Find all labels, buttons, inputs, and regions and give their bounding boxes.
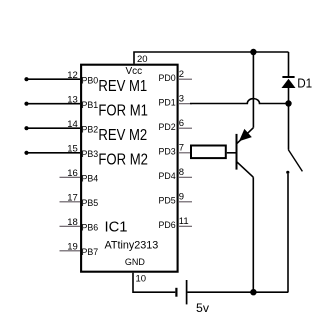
- wire Vcc pin20 stub and top rail: [134, 52, 289, 64]
- svg-text:15: 15: [67, 144, 78, 155]
- wire collector column down: [252, 177, 254, 292]
- transistor Q1 base bar: [236, 134, 238, 170]
- pin 15 wire: [27, 152, 81, 154]
- node dot diode/PD1/switch junction: [285, 100, 291, 106]
- svg-text:18: 18: [67, 217, 78, 228]
- wire resistor to base: [227, 152, 236, 154]
- pin 6 stub: [178, 127, 192, 129]
- svg-text:PB2: PB2: [82, 124, 99, 134]
- pin 16 stub: [60, 176, 81, 178]
- op-amp U1 : IC1 ATtiny2313 body: [81, 65, 178, 272]
- node dot top rail / emitter column: [250, 49, 256, 55]
- svg-text:14: 14: [67, 119, 78, 130]
- svg-text:9: 9: [179, 192, 184, 203]
- pin 13 wire: [27, 103, 81, 105]
- switch SW1 contact dot: [286, 171, 289, 174]
- svg-text:PD3: PD3: [158, 146, 175, 156]
- node dot pin 15: [24, 151, 28, 155]
- pin 18 stub: [60, 225, 81, 227]
- wire bottom rail: [188, 291, 289, 293]
- transistor Q1 collector diagonal: [237, 162, 254, 178]
- node dot bottom rail / collector: [250, 289, 256, 295]
- wire diode bottom: [288, 88, 290, 104]
- svg-text:12: 12: [67, 70, 78, 81]
- svg-text:13: 13: [67, 95, 78, 106]
- battery BT1 negative plate: [175, 288, 177, 297]
- svg-text:PB0: PB0: [82, 75, 99, 85]
- transistor Q1 emitter diagonal: [236, 128, 253, 144]
- svg-text:8: 8: [179, 167, 184, 178]
- pin 3 stub: [178, 103, 192, 105]
- diode D1 triangle: [282, 79, 296, 88]
- pin 7 stub: [178, 152, 192, 154]
- svg-text:10: 10: [136, 274, 147, 285]
- svg-text:REV M2: REV M2: [98, 127, 147, 144]
- pin 9 stub: [178, 201, 192, 203]
- svg-text:5v: 5v: [196, 301, 210, 315]
- svg-text:PB3: PB3: [82, 149, 99, 159]
- pin 12 wire: [27, 78, 81, 80]
- svg-text:FOR M1: FOR M1: [98, 102, 148, 119]
- svg-text:PB6: PB6: [82, 222, 99, 232]
- pin 17 stub: [60, 201, 81, 203]
- wire switch bottom: [287, 174, 289, 292]
- diode D1 cathode bar: [282, 76, 294, 78]
- pin 14 wire: [27, 127, 81, 129]
- svg-text:PD5: PD5: [158, 195, 175, 205]
- svg-text:D1: D1: [297, 76, 312, 91]
- svg-text:ATtiny2313: ATtiny2313: [105, 240, 159, 252]
- svg-text:PD2: PD2: [158, 122, 175, 132]
- svg-text:20: 20: [137, 54, 148, 65]
- node dot pin 13: [24, 102, 28, 106]
- svg-text:GND: GND: [125, 257, 146, 267]
- pin 19 stub: [60, 250, 81, 252]
- pin 2 stub: [178, 78, 192, 80]
- svg-text:6: 6: [179, 118, 184, 129]
- svg-text:IC1: IC1: [105, 220, 128, 236]
- svg-text:PB1: PB1: [82, 100, 99, 110]
- node dot pin 12: [24, 77, 28, 81]
- svg-text:7: 7: [179, 143, 184, 154]
- svg-text:REV M1: REV M1: [98, 78, 147, 95]
- pin 11 stub: [178, 225, 192, 227]
- battery BT1 positive plate: [186, 280, 188, 304]
- svg-text:PD6: PD6: [158, 220, 175, 230]
- svg-text:PD0: PD0: [158, 73, 175, 83]
- svg-text:PD1: PD1: [158, 97, 175, 107]
- svg-text:2: 2: [179, 69, 184, 80]
- svg-text:PB7: PB7: [82, 247, 99, 257]
- svg-text:PD4: PD4: [158, 171, 175, 181]
- wire PD1 to junction with hop over emitter line: [190, 99, 289, 104]
- wire GND pin10 stub: [133, 273, 175, 292]
- wire switch top: [288, 104, 290, 150]
- svg-text:3: 3: [179, 94, 184, 105]
- resistor R1 body: [191, 146, 226, 159]
- svg-text:FOR M2: FOR M2: [98, 151, 148, 168]
- wire emitter column (Vcc rail to transistor): [252, 52, 254, 128]
- svg-text:PB4: PB4: [82, 173, 99, 183]
- svg-text:Vcc: Vcc: [125, 66, 142, 77]
- svg-text:PB5: PB5: [82, 198, 99, 208]
- switch SW1 blade: [288, 150, 302, 172]
- svg-text:16: 16: [67, 168, 78, 179]
- pin 8 stub: [178, 176, 192, 178]
- transistor Q1 emitter arrow (PNP): [239, 129, 252, 141]
- node dot pin 14: [24, 126, 28, 130]
- svg-text:11: 11: [179, 216, 189, 227]
- svg-text:17: 17: [67, 193, 78, 204]
- wire diode top: [288, 52, 290, 77]
- svg-text:19: 19: [67, 242, 78, 253]
